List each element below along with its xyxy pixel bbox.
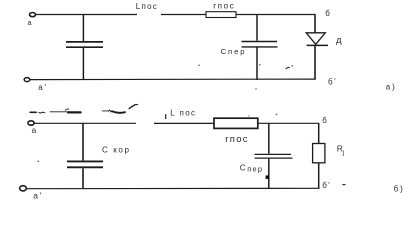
svg-text:С кор: С кор	[102, 146, 131, 155]
svg-text:а): а)	[386, 83, 397, 92]
svg-text:б: б	[325, 9, 330, 18]
svg-text:а': а'	[33, 191, 43, 201]
svg-text:L пос: L пос	[170, 108, 196, 117]
svg-text:а: а	[28, 18, 32, 27]
svg-text:д: д	[336, 35, 342, 46]
svg-text:пер: пер	[247, 165, 263, 174]
svg-text:Спер: Спер	[221, 47, 247, 56]
svg-text:rпос: rпос	[213, 0, 235, 10]
svg-text:C: C	[240, 163, 246, 172]
svg-text:б: б	[322, 116, 327, 125]
svg-text:а': а'	[38, 83, 48, 92]
svg-text:rпос: rпос	[225, 134, 249, 145]
svg-text:б): б)	[394, 185, 405, 194]
svg-text:б': б'	[328, 78, 337, 87]
svg-text:а: а	[32, 125, 37, 135]
svg-text:Lпос: Lпос	[136, 2, 158, 11]
svg-text:б': б'	[322, 181, 331, 190]
